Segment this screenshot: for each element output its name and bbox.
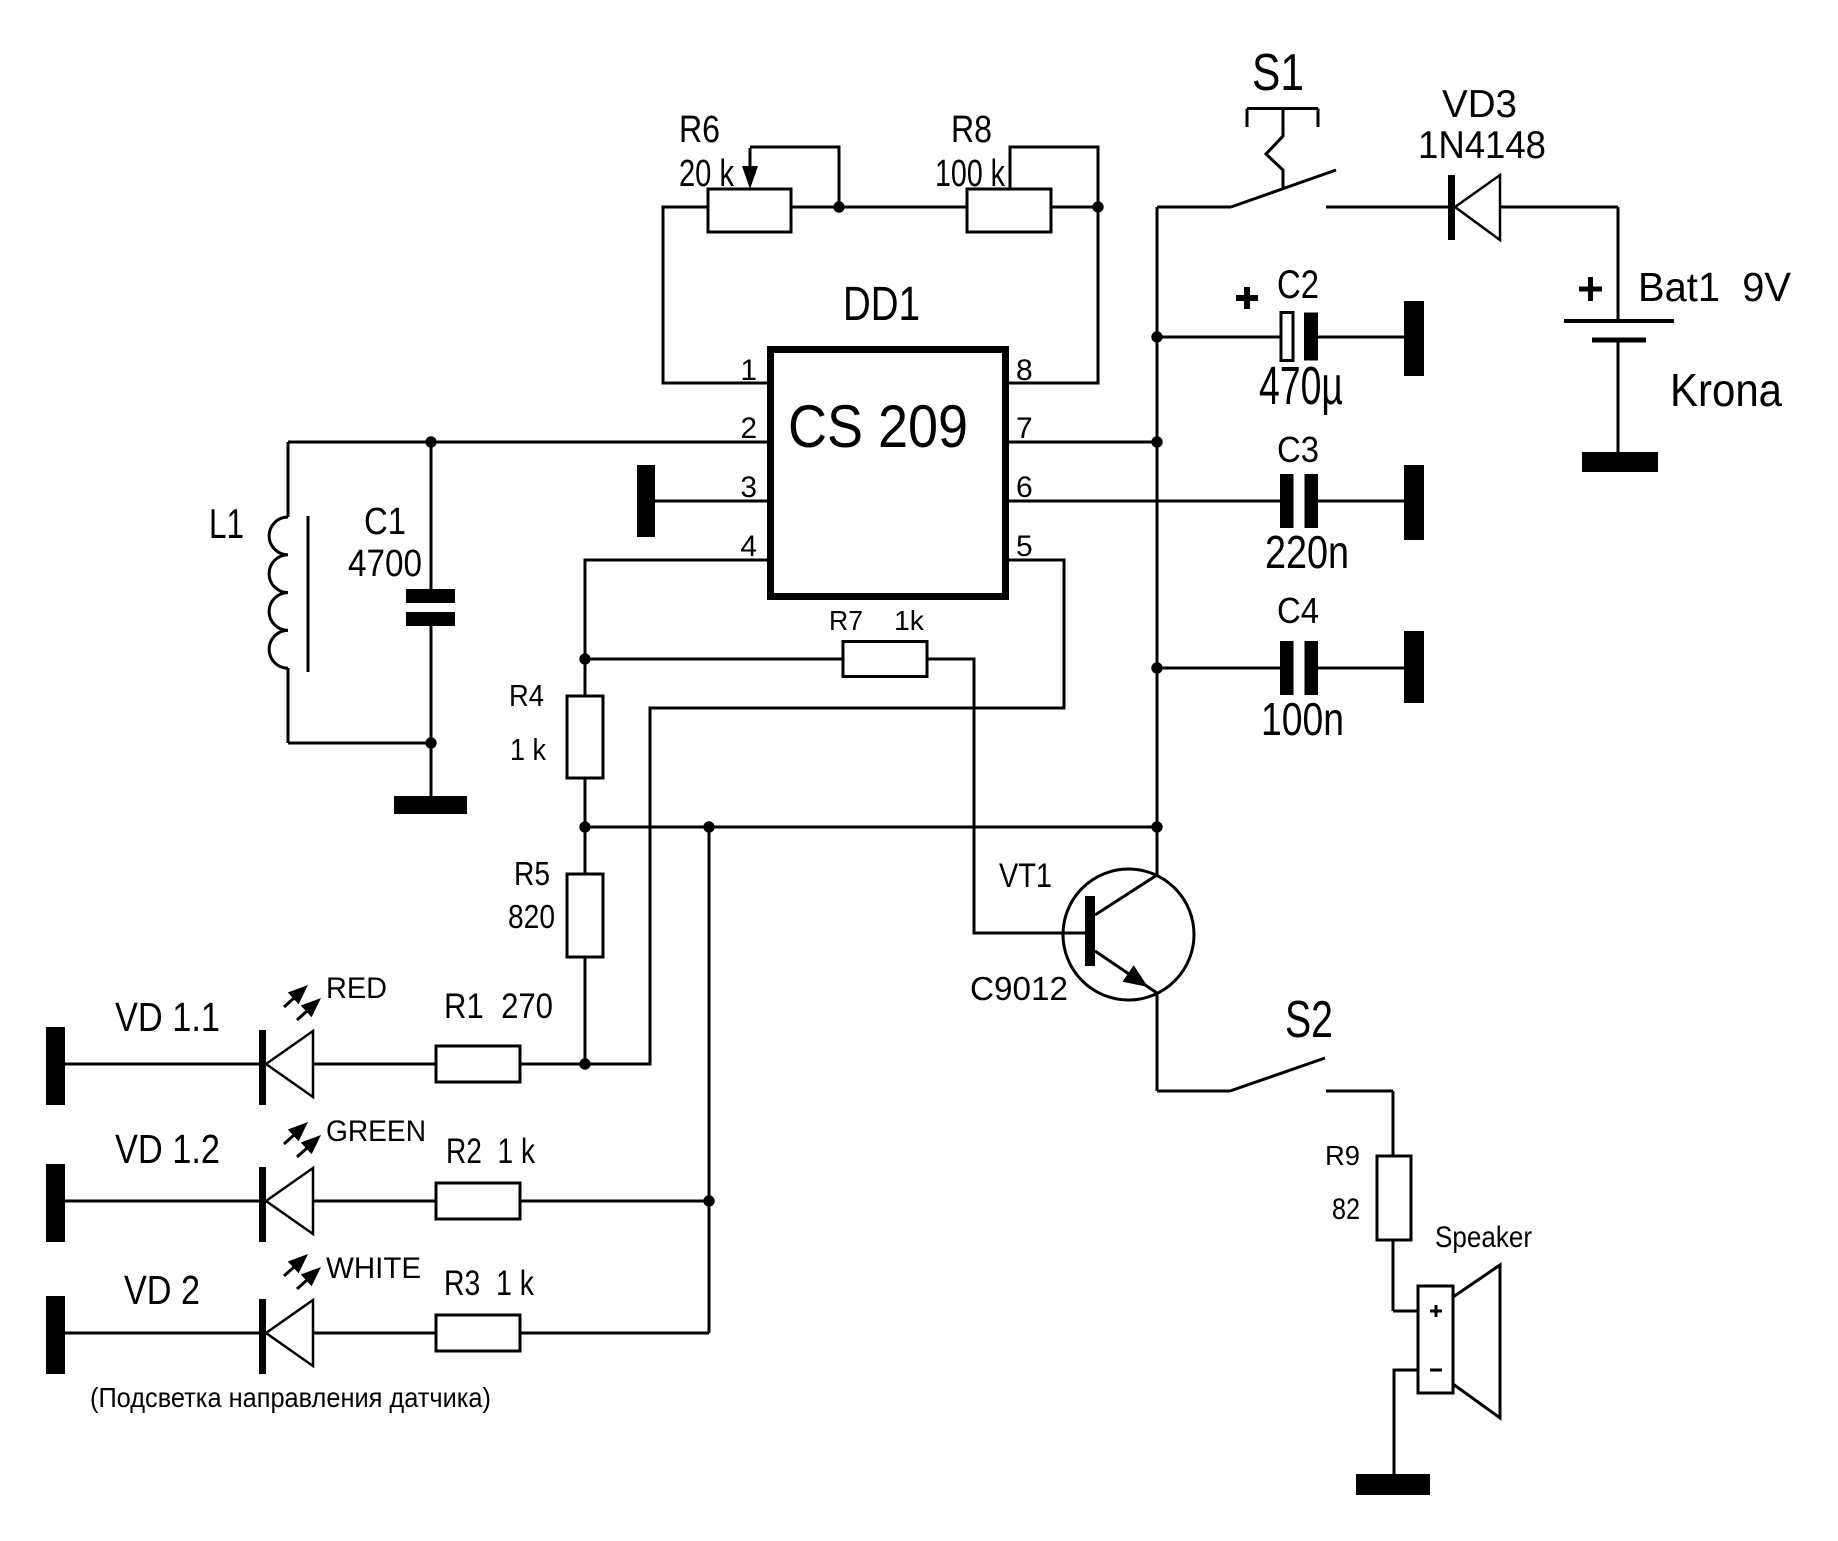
svg-text:100 k: 100 k (935, 153, 1006, 195)
node L1/C1 top (425, 436, 436, 447)
resistor R4 (509, 659, 603, 827)
svg-text:82: 82 (1332, 1193, 1360, 1226)
svg-text:2: 2 (740, 412, 757, 445)
speaker (1393, 1221, 1532, 1474)
wire R2 to node (520, 1200, 709, 1203)
resistor R5 (508, 827, 603, 1064)
svg-text:100n: 100n (1261, 693, 1344, 745)
ground speaker (1356, 1474, 1430, 1495)
svg-text:VD 1.2: VD 1.2 (115, 1126, 220, 1172)
svg-text:VD 2: VD 2 (124, 1267, 200, 1313)
svg-text:4700: 4700 (348, 543, 422, 585)
node C4 rail (1151, 662, 1162, 673)
node R6 wiper junction (833, 201, 844, 212)
resistor R3 (436, 1264, 534, 1351)
svg-text:R5: R5 (514, 855, 550, 892)
op-amp U1 (IC DD1 CS 209) (771, 278, 1006, 597)
svg-text:VD 1.1: VD 1.1 (115, 994, 220, 1040)
node pin4/R7/R4 (579, 653, 590, 664)
LED VD1.2 (65, 1115, 426, 1242)
svg-text:1: 1 (740, 354, 757, 387)
ground VD1.1 (46, 1027, 65, 1105)
wire R8 right (1051, 206, 1098, 209)
svg-text:WHITE: WHITE (326, 1252, 421, 1285)
ground C4 (1404, 631, 1424, 703)
wire pin 5 loop (585, 560, 1064, 1064)
wire R3 to branch (520, 1332, 709, 1335)
wire pin 4 down (585, 560, 770, 659)
wire LED branch vertical (708, 827, 711, 1333)
node R5/R1 junction (579, 1058, 590, 1069)
wire supply rail (1156, 207, 1159, 875)
diode VD3 1N4148 (1418, 83, 1618, 240)
wire R7 to VT1 base (927, 659, 1085, 933)
ground C1 (394, 796, 467, 814)
resistor R1 (436, 987, 553, 1082)
wire pin 6 to C3 (1006, 500, 1280, 503)
svg-text:Bat1 9V: Bat1 9V (1638, 264, 1792, 310)
svg-text:R7: R7 (829, 605, 863, 636)
switch S2 (1157, 991, 1393, 1091)
wire R6 left to pin 1 (663, 207, 770, 383)
ground VD1.2 (46, 1164, 65, 1242)
ground battery (1582, 452, 1658, 472)
svg-text:C3: C3 (1277, 429, 1319, 470)
resistor R9 (1325, 1091, 1411, 1311)
node R8 tap junction (1092, 201, 1103, 212)
svg-text:R8: R8 (951, 109, 992, 151)
svg-text:R1 270: R1 270 (444, 987, 553, 1026)
svg-text:220n: 220n (1265, 526, 1349, 578)
svg-text:7: 7 (1016, 412, 1033, 445)
wire VD2 to R3 (313, 1332, 436, 1335)
svg-text:DD1: DD1 (843, 278, 920, 331)
capacitor C1 (348, 442, 455, 796)
node bus rail (1151, 821, 1162, 832)
wire R1 to node (520, 1063, 650, 1066)
svg-text:1 k: 1 k (510, 732, 546, 767)
svg-text:R6: R6 (679, 109, 720, 151)
svg-text:6: 6 (1016, 471, 1033, 504)
node R2 branch (703, 1195, 714, 1206)
svg-text:3: 3 (740, 471, 757, 504)
node R4/R5 bus left (579, 821, 590, 832)
svg-text:820: 820 (508, 898, 555, 935)
svg-text:S1: S1 (1252, 44, 1304, 102)
switch S1 (1157, 44, 1448, 207)
node bus LED branch (703, 821, 714, 832)
capacitor C3 220n (1265, 429, 1404, 578)
svg-text:R2 1 k: R2 1 k (446, 1132, 535, 1171)
battery Bat1 (1564, 207, 1792, 452)
wire R8 to pin 8 (1006, 207, 1098, 383)
svg-text:R3 1 k: R3 1 k (444, 1264, 534, 1303)
svg-text:C1: C1 (364, 501, 406, 543)
potentiometer R6 (679, 109, 839, 232)
wire pin 3 (655, 500, 770, 503)
ground C2 (1404, 301, 1424, 376)
node C2 rail (1151, 331, 1162, 342)
wire bus to rail (585, 826, 1157, 829)
svg-text:1N4148: 1N4148 (1418, 124, 1546, 167)
capacitor C4 100n (1157, 590, 1404, 745)
svg-text:8: 8 (1016, 354, 1033, 387)
svg-text:(Подсветка направления датчика: (Подсветка направления датчика) (90, 1382, 491, 1413)
capacitor C2 470u (1157, 263, 1404, 416)
ground C3 (1404, 465, 1424, 540)
node C1 bottom (425, 737, 436, 748)
svg-text:C9012: C9012 (970, 970, 1068, 1007)
resistor R2 (436, 1132, 535, 1219)
svg-text:CS 209: CS 209 (788, 393, 968, 460)
svg-text:20 k: 20 k (679, 153, 735, 195)
svg-text:GREEN: GREEN (326, 1115, 426, 1148)
ground VD2 (46, 1296, 65, 1374)
wire to R7 (585, 658, 843, 661)
LED VD1.1 (65, 972, 387, 1105)
svg-text:L1: L1 (209, 500, 244, 547)
transistor Q1 VT1 C9012 (970, 857, 1194, 1007)
svg-text:Krona: Krona (1670, 364, 1782, 416)
svg-text:4: 4 (740, 530, 757, 563)
node pin7 rail (1151, 436, 1162, 447)
wire VD1.1 to R1 (313, 1063, 436, 1066)
svg-text:VD3: VD3 (1442, 83, 1517, 126)
svg-text:R9: R9 (1325, 1140, 1360, 1171)
svg-text:RED: RED (326, 972, 387, 1005)
svg-text:1k: 1k (894, 605, 925, 636)
wire rail lower (collector) (1156, 993, 1159, 1091)
svg-text:5: 5 (1016, 530, 1033, 563)
wire L1 bottom to C1 bottom (288, 742, 431, 745)
svg-text:C4: C4 (1277, 590, 1319, 631)
LED VD2 (65, 1252, 421, 1374)
potentiometer R8 (935, 109, 1098, 232)
resistor R7 (829, 605, 927, 677)
svg-text:R4: R4 (509, 678, 544, 713)
ground pin 3 (637, 465, 655, 537)
wire pin 2 to L1/C1 top (288, 441, 770, 444)
wire pin 7 to rail (1006, 441, 1157, 444)
wire VD1.2 to R2 (313, 1200, 436, 1203)
svg-text:C2: C2 (1277, 263, 1319, 307)
wire R6 right to R8 left (791, 206, 967, 209)
svg-text:470µ: 470µ (1259, 356, 1343, 416)
inductor L1 (209, 442, 308, 743)
svg-text:Speaker: Speaker (1435, 1221, 1532, 1254)
svg-text:S2: S2 (1285, 991, 1333, 1049)
svg-text:VT1: VT1 (999, 857, 1052, 895)
